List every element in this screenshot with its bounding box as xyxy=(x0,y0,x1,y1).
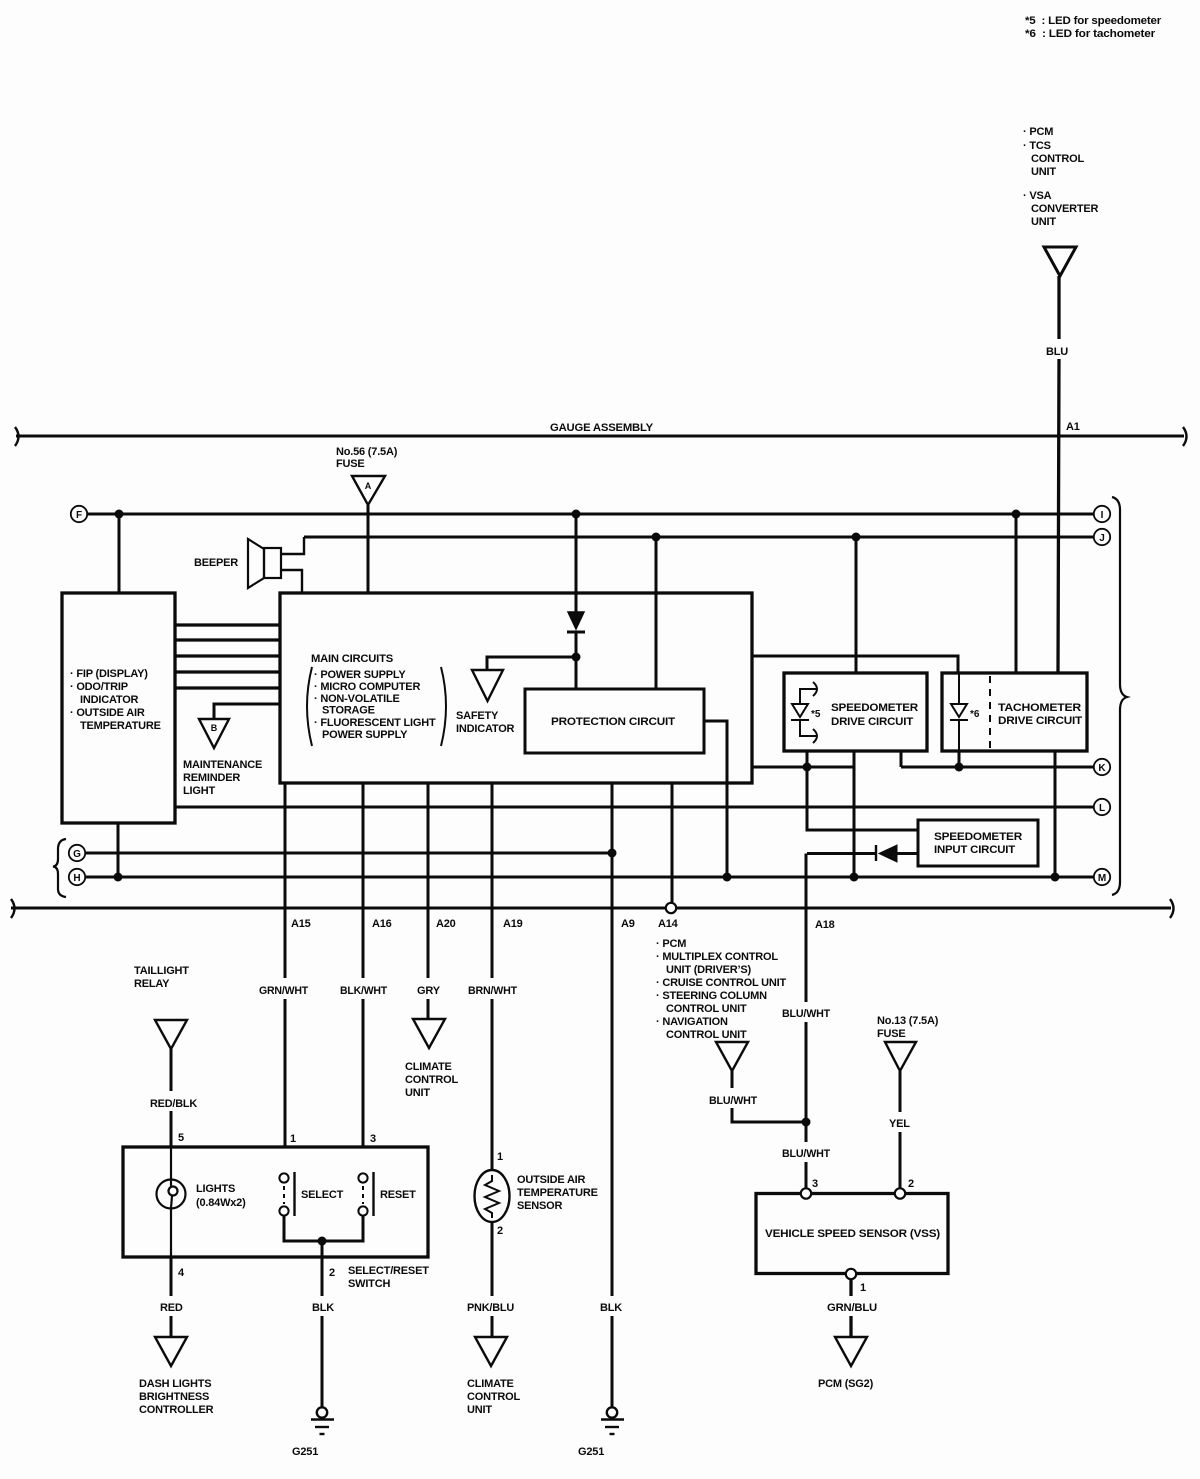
pin circle VSS 2 xyxy=(895,1188,905,1198)
svg-text:1: 1 xyxy=(290,1133,296,1145)
svg-text:CONTROL: CONTROL xyxy=(1031,153,1084,165)
svg-text:I: I xyxy=(1101,510,1104,521)
svg-text:GRY: GRY xyxy=(417,985,441,997)
svg-text:OUTSIDE AIR: OUTSIDE AIR xyxy=(517,1174,586,1186)
svg-text:UNIT: UNIT xyxy=(1031,166,1056,178)
junction on J at protection drop xyxy=(652,533,661,542)
wire A14 to bus connector xyxy=(671,783,674,903)
svg-text:SELECT/RESET: SELECT/RESET xyxy=(348,1265,429,1277)
wire net F horizontal to connector I xyxy=(87,513,1093,516)
wire net J to protection circuit xyxy=(655,537,658,689)
svg-text:POWER SUPPLY: POWER SUPPLY xyxy=(322,729,408,741)
safety indicator triangle xyxy=(472,670,503,701)
connector triangle from taillight relay xyxy=(155,1020,187,1049)
svg-text:UNIT (DRIVER’S): UNIT (DRIVER’S) xyxy=(666,964,752,976)
svg-text:INDICATOR: INDICATOR xyxy=(80,694,139,706)
reset switch xyxy=(358,1172,373,1216)
wire A20 GRY column xyxy=(427,783,430,1019)
svg-text:CONTROL UNIT: CONTROL UNIT xyxy=(666,1029,747,1041)
svg-text:TEMPERATURE: TEMPERATURE xyxy=(517,1187,598,1199)
label CLIMATE CONTROL UNIT (A20) xyxy=(405,1061,458,1099)
svg-text:BRN/WHT: BRN/WHT xyxy=(468,985,517,997)
svg-text:2: 2 xyxy=(497,1225,503,1237)
label DASH LIGHTS BRIGHTNESS CONTROLLER xyxy=(139,1378,214,1416)
junction net M at protection xyxy=(723,873,732,882)
svg-text:· CRUISE CONTROL UNIT: · CRUISE CONTROL UNIT xyxy=(656,977,787,989)
outside air temperature sensor xyxy=(475,1170,510,1222)
svg-text:· NON-VOLATILE: · NON-VOLATILE xyxy=(314,693,400,705)
protection circuit box xyxy=(525,689,704,753)
wire tachometer box to net M xyxy=(1054,751,1057,877)
svg-text:PROTECTION CIRCUIT: PROTECTION CIRCUIT xyxy=(551,716,676,728)
svg-text:RELAY: RELAY xyxy=(134,978,170,990)
main circuits box xyxy=(280,593,752,783)
svg-text:*6: *6 xyxy=(970,709,980,720)
junction on J at speedometer drop xyxy=(852,533,861,542)
wire net G to A9 column xyxy=(85,852,612,855)
svg-text:· ODO/TRIP: · ODO/TRIP xyxy=(70,681,128,693)
diode in main circuits box xyxy=(575,514,578,612)
svg-text:RED/BLK: RED/BLK xyxy=(150,1098,197,1110)
junction net H at FIP xyxy=(114,873,123,882)
wire select and reset commons joined xyxy=(284,1215,363,1241)
svg-text:1: 1 xyxy=(497,1151,503,1163)
svg-text:BLU/WHT: BLU/WHT xyxy=(782,1148,830,1160)
left parenthesis for connectors G H xyxy=(53,839,66,897)
svg-text:*5 : LED for speedometer: *5 : LED for speedometer xyxy=(1025,15,1162,27)
right brace for connectors I-M xyxy=(1112,497,1127,895)
label TACHOMETER DRIVE CIRCUIT xyxy=(998,702,1083,727)
svg-text:CONTROL UNIT: CONTROL UNIT xyxy=(666,1003,747,1015)
connector M xyxy=(1094,869,1110,885)
node list PCM MULTIPLEX CRUISE STEERING NAVIGATION xyxy=(656,938,787,1041)
node label VSA CONVERTER UNIT xyxy=(1023,190,1099,228)
wire junction K-level down to speedometer input circuit xyxy=(807,767,918,830)
wire protection circuit right side down to net M xyxy=(704,721,727,877)
svg-text:RED: RED xyxy=(160,1302,183,1314)
junction switch common xyxy=(318,1237,327,1246)
connector G xyxy=(69,845,85,861)
connector L xyxy=(1094,799,1110,815)
wire A9 BLK column to ground xyxy=(611,783,614,1407)
svg-text:BEEPER: BEEPER xyxy=(194,557,238,569)
svg-text:A15: A15 xyxy=(291,918,311,930)
svg-text:BLU/WHT: BLU/WHT xyxy=(709,1095,757,1107)
svg-text:No.56 (7.5A): No.56 (7.5A) xyxy=(336,446,398,458)
svg-text:A20: A20 xyxy=(436,918,456,930)
svg-text:· OUTSIDE AIR: · OUTSIDE AIR xyxy=(70,707,145,719)
wire RED/BLK from taillight relay xyxy=(170,1049,173,1147)
wire lights pin 4 RED to controller xyxy=(170,1257,173,1337)
wire A18 up through diode to speedometer input circuit xyxy=(807,852,918,855)
label SELECT/RESET SWITCH xyxy=(348,1265,429,1290)
svg-text:UNIT: UNIT xyxy=(467,1404,492,1416)
svg-text:2: 2 xyxy=(908,1178,914,1190)
label TAILLIGHT RELAY xyxy=(134,965,189,990)
connector K xyxy=(1094,759,1110,775)
connector J xyxy=(1094,529,1110,545)
svg-text:J: J xyxy=(1099,533,1105,544)
svg-text:G251: G251 xyxy=(578,1446,604,1458)
tachometer drive circuit box xyxy=(942,673,1087,751)
svg-text:· MULTIPLEX CONTROL: · MULTIPLEX CONTROL xyxy=(656,951,778,963)
svg-text:BLU: BLU xyxy=(1046,346,1068,358)
wire A16 BLK/WHT column xyxy=(362,783,365,1147)
svg-text:BRIGHTNESS: BRIGHTNESS xyxy=(139,1391,209,1403)
svg-text:G251: G251 xyxy=(292,1446,318,1458)
wire A18 BLU/WHT column xyxy=(805,854,808,1123)
svg-text:YEL: YEL xyxy=(889,1118,910,1130)
svg-text:RESET: RESET xyxy=(380,1189,416,1201)
wire A18 to VSS pin 3 xyxy=(805,1122,808,1188)
wire from FIP box bottom to net H xyxy=(117,823,120,877)
svg-text:H: H xyxy=(73,873,80,884)
svg-text:DRIVE CIRCUIT: DRIVE CIRCUIT xyxy=(831,716,913,728)
connector triangle to climate control unit (A20) xyxy=(413,1019,445,1048)
ribbon wire 4 xyxy=(175,670,280,673)
svg-text:A18: A18 xyxy=(815,919,835,931)
junction on F at FIP drop xyxy=(115,510,124,519)
svg-text:G: G xyxy=(73,849,81,860)
connector triangle to dash lights brightness controller xyxy=(155,1337,187,1366)
wire A15 GRN/WHT column xyxy=(284,783,287,1147)
svg-text:5: 5 xyxy=(178,1132,184,1144)
junction net G at A9 xyxy=(608,849,617,858)
svg-text:· VSA: · VSA xyxy=(1023,190,1052,202)
wire net L from FIP box to connector L xyxy=(175,806,1093,809)
svg-text:L: L xyxy=(1099,803,1105,814)
svg-text:SELECT: SELECT xyxy=(301,1189,344,1201)
label OUTSIDE AIR TEMPERATURE SENSOR xyxy=(517,1174,598,1212)
wire speedometer pin to net M xyxy=(853,751,856,877)
label CLIMATE CONTROL UNIT (lower) xyxy=(467,1378,520,1416)
svg-text:3: 3 xyxy=(370,1133,376,1145)
svg-text:DASH LIGHTS: DASH LIGHTS xyxy=(139,1378,211,1390)
svg-text:BLK: BLK xyxy=(312,1302,334,1314)
connector F xyxy=(71,506,87,522)
svg-text:LIGHTS: LIGHTS xyxy=(196,1183,235,1195)
connector I xyxy=(1094,506,1110,522)
diode into speedometer input circuit xyxy=(875,845,877,861)
svg-text:B: B xyxy=(211,723,218,733)
pin circle VSS 3 xyxy=(801,1188,811,1198)
ribbon wire 3 xyxy=(175,654,280,657)
svg-text:4: 4 xyxy=(178,1267,185,1279)
wire main circuits right edge to K-level junction xyxy=(752,766,854,769)
LED *6 symbol xyxy=(950,673,968,751)
svg-text:SPEEDOMETER: SPEEDOMETER xyxy=(831,702,918,714)
ribbon wire 5 xyxy=(175,686,280,689)
select switch xyxy=(279,1172,294,1216)
speedometer drive circuit box xyxy=(784,673,927,751)
svg-text:M: M xyxy=(1098,873,1106,884)
svg-text:A19: A19 xyxy=(503,918,523,930)
svg-text:BLK/WHT: BLK/WHT xyxy=(340,985,387,997)
svg-text:CLIMATE: CLIMATE xyxy=(405,1061,452,1073)
wire net H / net M horizontal xyxy=(85,876,1093,879)
svg-text:TEMPERATURE: TEMPERATURE xyxy=(80,720,161,732)
svg-text:MAINTENANCE: MAINTENANCE xyxy=(183,759,262,771)
label SPEEDOMETER INPUT CIRCUIT xyxy=(934,831,1022,856)
junction on F at tachometer drop xyxy=(1012,510,1021,519)
svg-text:SAFETY: SAFETY xyxy=(456,710,499,722)
svg-text:· NAVIGATION: · NAVIGATION xyxy=(656,1016,728,1028)
svg-text:A1: A1 xyxy=(1066,421,1080,433)
svg-text:REMINDER: REMINDER xyxy=(183,772,240,784)
wire diode junction to protection circuit box xyxy=(575,657,578,689)
svg-text:*5: *5 xyxy=(811,709,821,720)
wire beeper lower terminal to main circuits box xyxy=(281,570,302,593)
wire A1 BLU vertical from VSA triangle to tachometer box xyxy=(1058,276,1059,673)
svg-text:· FLUORESCENT LIGHT: · FLUORESCENT LIGHT xyxy=(314,717,436,729)
junction net M at speedometer xyxy=(850,873,859,882)
svg-text:· FIP (DISPLAY): · FIP (DISPLAY) xyxy=(70,668,148,680)
junction net K tachometer LED xyxy=(955,763,964,772)
FIP display box xyxy=(62,593,175,823)
wire beeper upper terminal to net J xyxy=(281,537,304,554)
gauge assembly boundary bus (bottom) xyxy=(11,907,1171,910)
svg-text:MAIN CIRCUITS: MAIN CIRCUITS xyxy=(311,653,393,665)
connector triangle to climate control unit (lower) xyxy=(475,1337,507,1366)
lights bulb xyxy=(157,1147,186,1257)
fuse A triangle xyxy=(352,476,385,505)
svg-text:DRIVE CIRCUIT: DRIVE CIRCUIT xyxy=(998,715,1083,727)
svg-text:A: A xyxy=(365,481,372,491)
wire net J from beeper to connector J xyxy=(304,536,1093,539)
svg-text:· MICRO COMPUTER: · MICRO COMPUTER xyxy=(314,681,420,693)
wire switch common BLK to ground xyxy=(321,1241,324,1407)
main circuits big parentheses xyxy=(307,667,312,746)
junction A18 multiplex xyxy=(802,1118,811,1127)
svg-text:· PCM: · PCM xyxy=(1023,126,1053,138)
svg-text:BLU/WHT: BLU/WHT xyxy=(782,1008,830,1020)
svg-text:A14: A14 xyxy=(658,918,679,930)
svg-text:CONTROLLER: CONTROLLER xyxy=(139,1404,214,1416)
connector H xyxy=(69,869,85,885)
svg-text:· POWER SUPPLY: · POWER SUPPLY xyxy=(314,669,406,681)
svg-text:No.13 (7.5A): No.13 (7.5A) xyxy=(877,1015,939,1027)
wire A19 BRN/WHT column xyxy=(491,783,494,1170)
svg-text:INDICATOR: INDICATOR xyxy=(456,723,515,735)
svg-text:K: K xyxy=(1098,763,1106,774)
label SPEEDOMETER DRIVE CIRCUIT xyxy=(831,702,918,728)
svg-text:SWITCH: SWITCH xyxy=(348,1278,390,1290)
ribbon wire 1 FIP to main circuits xyxy=(175,623,280,626)
svg-text:UNIT: UNIT xyxy=(1031,216,1056,228)
svg-text:PCM (SG2): PCM (SG2) xyxy=(818,1378,874,1390)
ground G251 (switch) xyxy=(311,1407,334,1434)
indicator triangle B maintenance reminder light xyxy=(199,719,229,748)
wire tachometer LED to net K junction xyxy=(958,751,961,767)
svg-text:· STEERING COLUMN: · STEERING COLUMN xyxy=(656,990,767,1002)
wire from net F down to FIP box xyxy=(118,514,121,593)
wire YEL from fuse No.13 to VSS pin 2 xyxy=(899,1071,902,1188)
wire from fuse A into main circuits box xyxy=(367,505,370,593)
fuse No.13 triangle xyxy=(885,1042,916,1071)
svg-text:SENSOR: SENSOR xyxy=(517,1200,563,1212)
beeper xyxy=(248,539,281,588)
svg-text:FUSE: FUSE xyxy=(336,458,365,470)
wire net J to speedometer drive circuit xyxy=(855,537,858,673)
svg-text:BLK: BLK xyxy=(600,1302,622,1314)
svg-text:FUSE: FUSE xyxy=(877,1028,906,1040)
LED *5 symbol xyxy=(791,682,817,743)
ground G251 (A9) xyxy=(601,1407,624,1434)
svg-text:3: 3 xyxy=(812,1178,818,1190)
main circuits text xyxy=(311,653,436,741)
svg-text:STORAGE: STORAGE xyxy=(322,705,375,717)
svg-text:GRN/BLU: GRN/BLU xyxy=(827,1302,877,1314)
wire diode junction to safety indicator xyxy=(487,657,576,670)
connector triangle from multiplex units xyxy=(716,1042,748,1071)
svg-text:SPEEDOMETER: SPEEDOMETER xyxy=(934,831,1022,843)
svg-text:F: F xyxy=(76,510,82,521)
pin circle VSS 1 xyxy=(846,1269,856,1279)
wire PNK/BLU from sensor to climate control unit xyxy=(491,1222,494,1337)
wire maintenance reminder light B to main circuits xyxy=(214,704,280,719)
label SAFETY INDICATOR xyxy=(456,710,515,735)
svg-text:GRN/WHT: GRN/WHT xyxy=(259,985,308,997)
speedometer input circuit box xyxy=(918,820,1038,866)
svg-text:CONTROL: CONTROL xyxy=(405,1074,458,1086)
connector triangle to PCM (SG2) xyxy=(835,1337,867,1366)
wire net K to connector K xyxy=(901,766,1093,769)
svg-text:INPUT CIRCUIT: INPUT CIRCUIT xyxy=(934,844,1015,856)
wire speedometer pin to net K xyxy=(900,751,903,767)
junction net M at tachometer xyxy=(1051,873,1060,882)
FIP box text xyxy=(70,668,161,732)
wire net F to tachometer drive circuit xyxy=(1015,514,1018,673)
svg-text:PNK/BLU: PNK/BLU xyxy=(467,1302,514,1314)
wire speedometer pin to K-level junction xyxy=(806,751,809,767)
pin circle A14 on bus xyxy=(666,903,676,913)
wire main circuits to tachometer drive circuit xyxy=(752,656,958,673)
svg-text:CLIMATE: CLIMATE xyxy=(467,1378,514,1390)
wire BLU/WHT from multiplex triangle to A18 xyxy=(732,1071,806,1122)
svg-text:· TCS: · TCS xyxy=(1023,140,1051,152)
svg-text:LIGHT: LIGHT xyxy=(183,785,215,797)
junction at speedometer input drop xyxy=(803,763,812,772)
svg-text:VEHICLE SPEED SENSOR (VSS): VEHICLE SPEED SENSOR (VSS) xyxy=(765,1228,941,1240)
svg-text:CONTROL: CONTROL xyxy=(467,1391,520,1403)
svg-text:A9: A9 xyxy=(621,918,635,930)
node label PCM / TCS CONTROL UNIT xyxy=(1023,126,1084,178)
svg-text:GAUGE ASSEMBLY: GAUGE ASSEMBLY xyxy=(550,422,654,434)
vehicle speed sensor box xyxy=(756,1194,948,1274)
svg-text:CONVERTER: CONVERTER xyxy=(1031,203,1099,215)
wire GRN/BLU from VSS to PCM xyxy=(849,1280,852,1338)
svg-text:A16: A16 xyxy=(372,918,392,930)
select/reset switch box xyxy=(123,1147,428,1257)
svg-text:1: 1 xyxy=(860,1282,866,1294)
gauge assembly boundary bus (top) xyxy=(16,435,1184,438)
svg-text:(0.84Wx2): (0.84Wx2) xyxy=(196,1197,246,1209)
svg-text:2: 2 xyxy=(329,1267,335,1279)
ribbon wire 2 xyxy=(175,638,280,641)
svg-text:TACHOMETER: TACHOMETER xyxy=(998,702,1081,714)
fuse A label No.56 (7.5A) FUSE xyxy=(336,446,398,470)
junction on F at diode drop xyxy=(572,510,581,519)
label LIGHTS (0.84Wx2) xyxy=(196,1183,246,1209)
dashed divider in tachometer box xyxy=(989,676,991,748)
label No.13 (7.5A) FUSE xyxy=(877,1015,939,1040)
svg-text:· PCM: · PCM xyxy=(656,938,686,950)
svg-text:TAILLIGHT: TAILLIGHT xyxy=(134,965,189,977)
junction diode to safety indicator branch xyxy=(572,653,581,662)
svg-text:UNIT: UNIT xyxy=(405,1087,430,1099)
label MAINTENANCE REMINDER LIGHT xyxy=(183,759,262,797)
connector triangle to VSA converter unit xyxy=(1044,247,1076,276)
svg-text:*6 : LED for tachometer: *6 : LED for tachometer xyxy=(1025,28,1156,40)
